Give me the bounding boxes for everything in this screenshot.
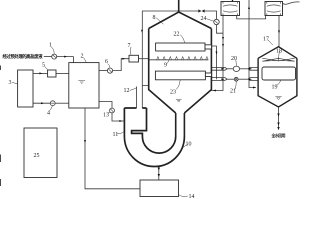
svg-text:24: 24: [201, 16, 207, 22]
svg-text:5: 5: [42, 63, 45, 69]
svg-text:全水回用: 全水回用: [271, 133, 286, 138]
svg-text:19: 19: [272, 85, 278, 91]
svg-text:10: 10: [186, 142, 192, 148]
svg-text:21: 21: [230, 89, 236, 95]
svg-text:11: 11: [113, 132, 119, 138]
svg-text:9: 9: [164, 63, 167, 69]
svg-text:23: 23: [170, 90, 176, 96]
svg-text:14: 14: [189, 194, 195, 200]
svg-text:3: 3: [9, 80, 12, 86]
svg-text:1: 1: [49, 43, 52, 49]
svg-text:经过预处理的高盐废液: 经过预处理的高盐废液: [3, 53, 44, 60]
svg-text:18: 18: [276, 49, 282, 55]
svg-text:25: 25: [34, 153, 40, 159]
svg-text:20: 20: [231, 56, 237, 62]
svg-text:4: 4: [47, 111, 50, 117]
svg-text:17: 17: [263, 37, 269, 43]
svg-text:6: 6: [105, 59, 108, 65]
svg-text:7: 7: [128, 43, 131, 49]
svg-text:12: 12: [124, 88, 130, 94]
svg-text:22: 22: [174, 32, 180, 38]
svg-text:8: 8: [153, 15, 156, 21]
svg-text:2: 2: [81, 54, 84, 60]
svg-text:13: 13: [103, 113, 109, 119]
